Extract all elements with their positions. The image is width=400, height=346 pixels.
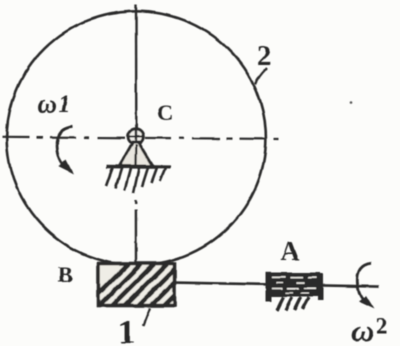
pivot C : pin cross [128,129,144,144]
rotation arrow omega-1 (arc) [57,127,73,168]
pivot C : pin circle [128,129,143,144]
pivot C : support triangle [120,142,154,166]
leader line to label 1 [143,308,150,326]
slider block 1 (hatched rectangle) [86,264,206,307]
wire: shaft from slider to bearing A and beyond [175,283,380,287]
vertical center line [135,5,138,129]
svg-text:1: 1 [118,314,135,346]
rotation arrow omega-2 (arc) [357,263,371,300]
pivot C : ground hatching [106,168,166,193]
svg-text:ω: ω [351,312,374,346]
bearing A : white streaks in body [272,277,317,293]
svg-text:2: 2 [257,41,271,72]
bearing A : ground hatching [277,297,310,311]
svg-text:ω: ω [37,89,57,119]
bearing A : right end bar [318,274,324,301]
svg-text:A: A [280,236,300,266]
svg-text:C: C [157,100,173,125]
svg-text:1: 1 [58,91,71,118]
disk 2 (large circle) [7,11,266,265]
pivot C : ground line [107,165,171,169]
stray scan speck [350,101,353,104]
bearing A : body block [269,273,320,297]
horizontal dashed center line [2,137,281,139]
wire: vertical link from ground to slider [134,200,137,263]
rotation arrow omega-2 (head) [359,296,375,310]
leader line to label 2 [256,68,268,84]
svg-text:B: B [58,262,73,287]
rotation arrow omega-1 (head) [59,160,74,175]
vertical center line through support [135,144,138,166]
svg-text:2: 2 [376,314,388,340]
bearing A : left end bar [266,272,272,302]
